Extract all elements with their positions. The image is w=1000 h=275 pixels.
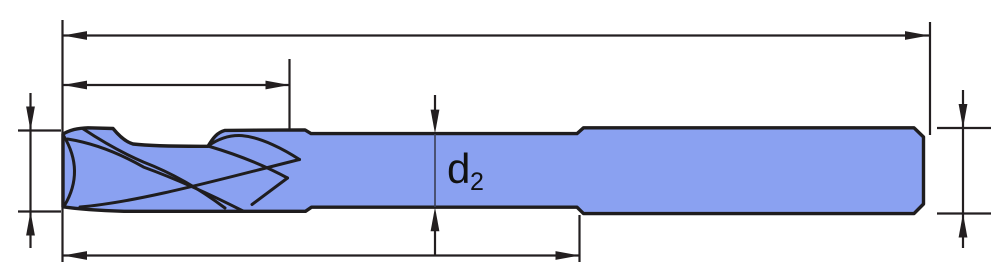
svg-text:d: d bbox=[447, 145, 470, 192]
svg-text:2: 2 bbox=[470, 168, 484, 196]
